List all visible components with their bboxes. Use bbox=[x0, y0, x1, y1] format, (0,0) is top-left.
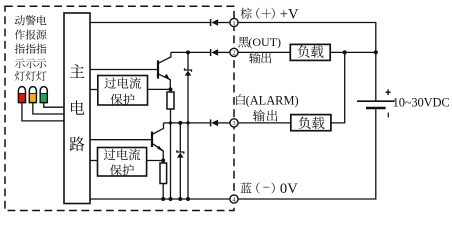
wire R2 to 0V bus bbox=[162, 184, 164, 200]
main circuit block 主电路 bbox=[64, 13, 90, 204]
resistor R1 (emitter sense) bbox=[167, 92, 174, 109]
terminal 4 bbox=[230, 195, 238, 203]
wire diode D2 to terminal 2 bbox=[218, 51, 230, 53]
wire diode D1 to terminal 1 bbox=[218, 22, 230, 24]
svg-text:2: 2 bbox=[232, 50, 235, 57]
junction R1 line crossing ALARM wire bbox=[169, 121, 172, 124]
label action-indicator-lamp bbox=[15, 15, 25, 81]
junction Z2 on 0V bus bbox=[178, 197, 182, 201]
svg-text:+V: +V bbox=[280, 7, 299, 23]
label 蓝 (-) 0V bbox=[241, 180, 299, 198]
wire main circuit to overcurrent box 2 bbox=[90, 160, 98, 162]
svg-text:−: − bbox=[263, 180, 270, 195]
svg-text:3: 3 bbox=[232, 120, 235, 127]
transistor Q1 (NPN, OUT driver) bbox=[158, 52, 171, 89]
transistor Q2 (NPN, ALARM driver) bbox=[152, 123, 164, 161]
junction +V rail bbox=[374, 50, 378, 54]
battery 10~30VDC bbox=[357, 89, 395, 117]
label 棕 (+) +V bbox=[240, 7, 299, 23]
sensor outline dashed border bbox=[5, 6, 234, 210]
overcurrent protection block 2 过电流保护 bbox=[98, 148, 147, 177]
wire ALARM line Q2 collector to diode D3 bbox=[164, 122, 211, 124]
diode D2 (OUT line) bbox=[211, 49, 219, 56]
wire R1 to 0V bus bbox=[170, 109, 172, 199]
label 10~30VDC bbox=[393, 95, 450, 109]
wire terminal 1 to battery + bbox=[238, 23, 376, 102]
wire base of Q1 from main circuit bbox=[90, 69, 157, 71]
overcurrent protection block 1 过电流保护 bbox=[98, 76, 148, 106]
wire LED red to main circuit bbox=[22, 103, 64, 121]
wire load 1 to +V rail bbox=[330, 51, 376, 53]
junction emitter/R2/sense bbox=[161, 159, 165, 163]
wire base of Q2 from main circuit bbox=[90, 139, 151, 141]
junction Z1 on 0V bus bbox=[186, 197, 190, 201]
wire overcurrent box 2 to emitter junction bbox=[147, 160, 164, 162]
junction R1 on 0V bus bbox=[169, 197, 173, 201]
load block 1 负载 bbox=[290, 44, 330, 60]
label 输出 (OUT) bbox=[249, 52, 271, 63]
junction zener Z1 on OUT line bbox=[186, 50, 190, 54]
svg-text:0V: 0V bbox=[280, 181, 298, 197]
zener Z1 (OUT clamp) bbox=[185, 52, 192, 199]
wire +V from main circuit to diode D1 bbox=[90, 22, 210, 24]
load block 2 负载 bbox=[291, 115, 331, 131]
junction load lines bbox=[343, 50, 347, 54]
zener Z2 (ALARM clamp) bbox=[177, 123, 184, 199]
label 白(ALARM) bbox=[236, 93, 298, 107]
wire overcurrent box 1 to emitter junction bbox=[148, 88, 171, 90]
junction emitter/R1/sense bbox=[169, 87, 173, 91]
wire diode D3 to terminal 3 bbox=[218, 122, 230, 124]
label 输出 (ALARM) bbox=[253, 110, 277, 122]
LED red (action) bbox=[18, 87, 25, 103]
label 黑(OUT) bbox=[238, 35, 281, 49]
wire battery - to 0V bus bbox=[238, 109, 376, 199]
terminal 1 bbox=[230, 18, 238, 26]
svg-text:(ALARM): (ALARM) bbox=[246, 93, 299, 107]
label alarm-indicator-lamp bbox=[25, 15, 35, 81]
svg-text:(OUT): (OUT) bbox=[248, 35, 281, 49]
svg-text:10~30VDC: 10~30VDC bbox=[393, 95, 450, 109]
diode D3 (ALARM line) bbox=[211, 119, 219, 126]
wire 0V bus from main circuit to terminal 4 bbox=[90, 198, 230, 200]
wire main circuit to overcurrent box 1 bbox=[90, 89, 98, 91]
diode D1 (reverse protection, +V line) bbox=[211, 19, 219, 26]
junction R2 on 0V bus bbox=[161, 197, 165, 201]
terminal 2 bbox=[230, 48, 238, 56]
svg-text:1: 1 bbox=[232, 20, 235, 27]
label power-indicator-lamp bbox=[36, 15, 46, 81]
wire terminal 3 to load 2 bbox=[238, 122, 291, 124]
junction zener Z2 on ALARM line bbox=[178, 121, 182, 125]
LED yellow (alarm) bbox=[29, 87, 36, 103]
wire terminal 2 to load 1 bbox=[238, 51, 290, 53]
wire LED yellow to main circuit bbox=[33, 103, 64, 114]
resistor R2 (emitter sense) bbox=[160, 163, 167, 184]
terminal 3 bbox=[230, 119, 238, 127]
wire LED green to main circuit bbox=[44, 103, 64, 108]
LED green (power) bbox=[40, 87, 47, 103]
wire load 2 up to junction bbox=[331, 52, 345, 123]
wire OUT line Q1 collector to diode D2 bbox=[171, 51, 210, 53]
junction Z1 line crossing ALARM wire bbox=[186, 121, 189, 124]
